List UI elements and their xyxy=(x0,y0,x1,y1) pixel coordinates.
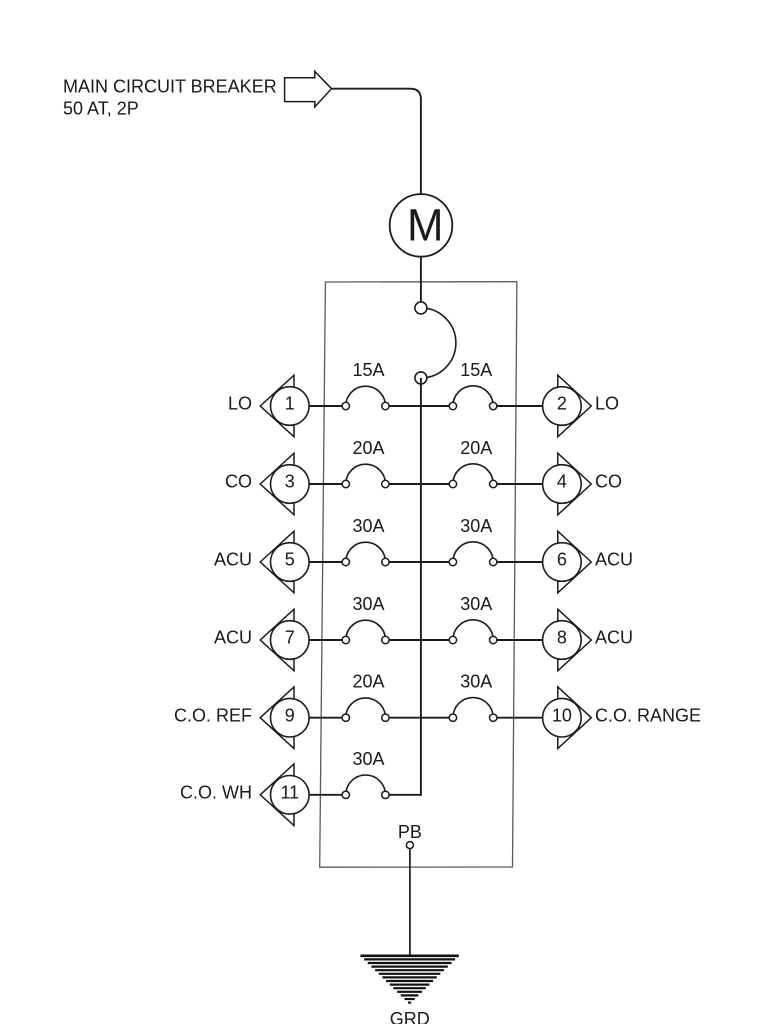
svg-text:PB: PB xyxy=(398,822,422,842)
svg-text:50 AT, 2P: 50 AT, 2P xyxy=(63,99,139,119)
svg-text:5: 5 xyxy=(285,550,295,570)
svg-text:20A: 20A xyxy=(352,672,384,692)
svg-text:10: 10 xyxy=(552,705,572,725)
svg-text:1: 1 xyxy=(285,394,295,414)
svg-text:30A: 30A xyxy=(460,672,492,692)
svg-text:4: 4 xyxy=(557,472,567,492)
svg-text:30A: 30A xyxy=(352,516,384,536)
svg-text:ACU: ACU xyxy=(595,628,633,648)
svg-text:M: M xyxy=(407,199,444,250)
svg-text:7: 7 xyxy=(285,628,295,648)
svg-text:11: 11 xyxy=(280,782,299,802)
svg-text:MAIN CIRCUIT BREAKER: MAIN CIRCUIT BREAKER xyxy=(63,77,277,97)
svg-text:C.O. RANGE: C.O. RANGE xyxy=(595,705,701,725)
svg-text:CO: CO xyxy=(595,472,622,492)
svg-text:ACU: ACU xyxy=(214,550,252,570)
svg-text:C.O. REF: C.O. REF xyxy=(174,705,252,725)
svg-text:6: 6 xyxy=(557,550,567,570)
svg-text:LO: LO xyxy=(595,394,619,414)
svg-text:20A: 20A xyxy=(460,438,492,458)
svg-text:20A: 20A xyxy=(352,438,384,458)
svg-text:2: 2 xyxy=(557,394,567,414)
svg-text:30A: 30A xyxy=(460,516,492,536)
svg-text:ACU: ACU xyxy=(214,628,252,648)
svg-text:30A: 30A xyxy=(460,594,492,614)
svg-text:LO: LO xyxy=(228,394,252,414)
svg-text:30A: 30A xyxy=(352,594,384,614)
svg-text:15A: 15A xyxy=(460,360,492,380)
svg-text:9: 9 xyxy=(285,705,295,725)
svg-text:ACU: ACU xyxy=(595,550,633,570)
svg-text:30A: 30A xyxy=(352,749,384,769)
svg-text:8: 8 xyxy=(557,628,567,648)
svg-text:15A: 15A xyxy=(352,360,384,380)
svg-text:GRD: GRD xyxy=(390,1009,430,1024)
svg-text:3: 3 xyxy=(285,472,295,492)
svg-text:CO: CO xyxy=(225,472,252,492)
svg-text:C.O. WH: C.O. WH xyxy=(180,782,252,802)
